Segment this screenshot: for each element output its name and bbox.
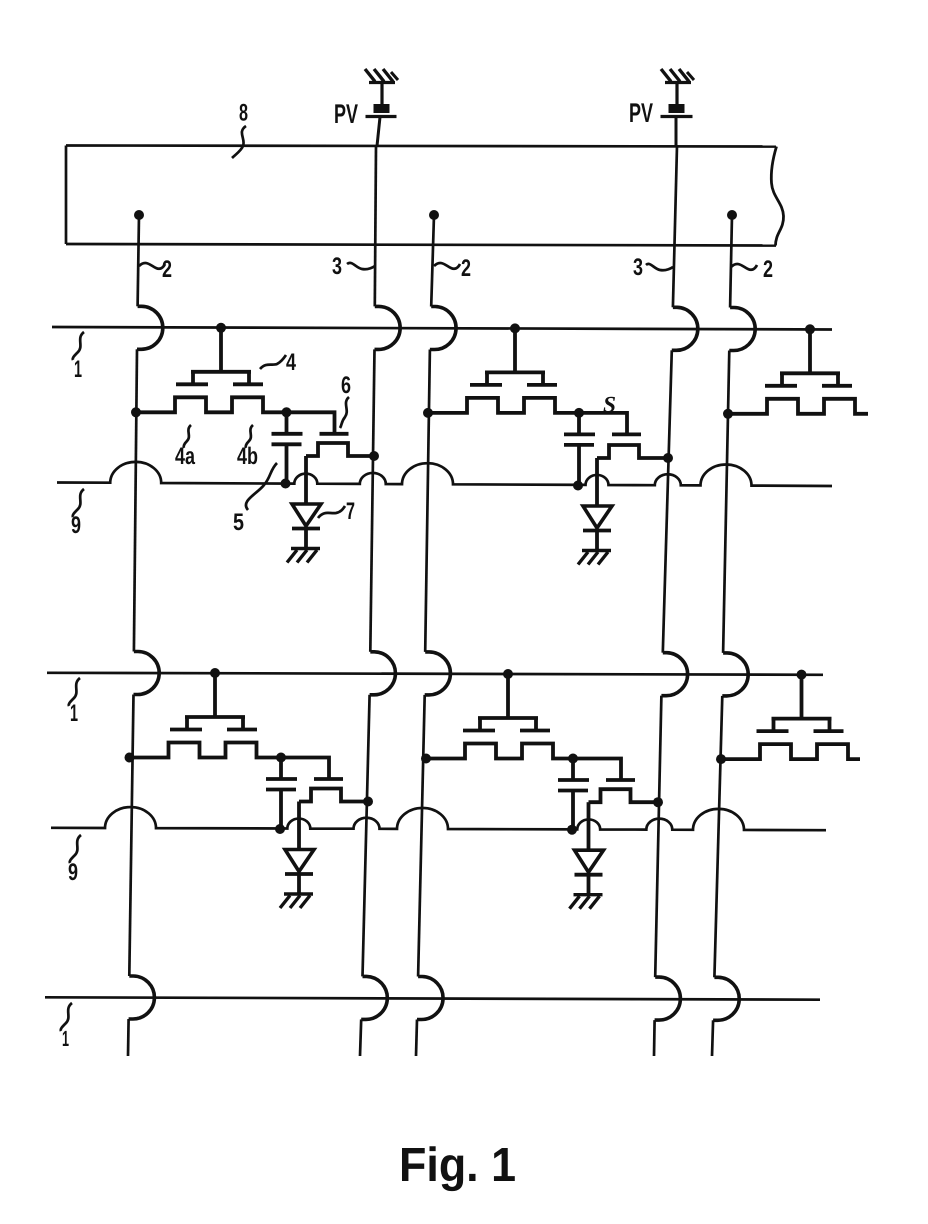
label 1 (second) with leader — [69, 678, 80, 727]
node dot R2C2 — [568, 754, 578, 764]
wire PV1 to bus — [377, 117, 380, 146]
wire ground to PV1 plate — [380, 83, 383, 106]
label 2 (c1) with leader — [139, 256, 172, 283]
svg-text:9: 9 — [71, 512, 81, 539]
svg-text:2: 2 — [162, 256, 172, 283]
node dot R1C2 — [574, 408, 584, 418]
node dot R1C1 — [282, 407, 292, 417]
capacitor 5 (R1C1) — [272, 412, 303, 488]
wire PV2 to bus — [675, 117, 678, 146]
svg-text:4a: 4a — [175, 443, 195, 470]
photodiode 7 (R2C1) — [285, 802, 314, 895]
photodiode 7 (R1C1) — [292, 456, 321, 549]
svg-text:3: 3 — [332, 253, 342, 280]
column line 2 (c1) — [128, 210, 163, 1056]
svg-text:1: 1 — [70, 700, 78, 727]
ground (R2C1) — [280, 894, 313, 908]
label 6 with leader — [340, 372, 351, 428]
node dot R2C1 — [276, 753, 286, 763]
label 4 with leader — [260, 349, 296, 376]
row line 1 (third) — [45, 997, 820, 999]
label 5 with leader — [233, 463, 277, 536]
caption Fig. 1 — [399, 1139, 516, 1192]
label PV2 — [629, 98, 653, 128]
column line 2 (c3) — [416, 210, 456, 1056]
bus 8 bottom conductor — [66, 244, 776, 246]
svg-text:4: 4 — [286, 349, 296, 376]
svg-text:Fig. 1: Fig. 1 — [399, 1139, 516, 1192]
capacitor PV2 (supply symbol) — [661, 104, 693, 117]
label 9 (first) with leader — [71, 489, 84, 539]
transistor 6 (R2C2) — [573, 759, 663, 808]
svg-text:1: 1 — [62, 1026, 69, 1051]
ground (R2C2) — [570, 895, 603, 909]
label 2 (c3) with leader — [434, 255, 471, 282]
label 1 (first) with leader — [73, 332, 84, 383]
wire ground to PV2 plate — [675, 83, 678, 106]
transistor 4 (R2C3 partial) — [716, 670, 860, 765]
column line 3 (c4 / PV2) — [654, 146, 698, 1056]
svg-text:PV: PV — [334, 99, 358, 129]
svg-text:1: 1 — [74, 356, 82, 383]
photodiode 7 (R2C2) — [575, 802, 604, 895]
transistor 4 (R2C2) — [421, 669, 573, 764]
svg-text:5: 5 — [233, 509, 244, 536]
svg-text:4b: 4b — [237, 443, 258, 470]
svg-text:9: 9 — [68, 859, 78, 886]
label 1 (third) with leader — [61, 1003, 72, 1051]
svg-text:7: 7 — [346, 498, 355, 525]
transistor 4 (R1C2) — [423, 323, 579, 418]
label 3 (c2) with leader — [332, 253, 375, 280]
label 2 (c5) with leader — [731, 256, 773, 283]
row line 9 (first) — [57, 462, 832, 486]
svg-text:2: 2 — [461, 255, 471, 282]
row line 1 (second) — [47, 673, 823, 675]
transistor 6 (R2C1) — [281, 758, 373, 807]
svg-text:2: 2 — [763, 256, 773, 283]
column line 2 (c5) — [712, 210, 755, 1056]
transistor 6 (R1C1) — [287, 412, 380, 461]
label PV1 — [334, 99, 358, 129]
label 8 with leader — [232, 100, 248, 159]
ground (R1C1) — [287, 549, 320, 563]
svg-text:S: S — [603, 392, 616, 417]
transistor 6 (R1C2) — [579, 413, 673, 463]
svg-text:8: 8 — [239, 100, 248, 127]
bus 8 broken right edge — [771, 147, 783, 246]
capacitor PV1 (supply symbol) — [366, 104, 397, 117]
svg-text:3: 3 — [633, 254, 643, 281]
label 4a with leader — [175, 425, 195, 470]
label 9 (second) with leader — [68, 835, 81, 886]
ground (PV2) — [661, 69, 694, 83]
label 7 with leader — [318, 498, 355, 525]
ground (R1C2) — [578, 551, 611, 565]
capacitor 5 (R1C2) — [564, 413, 595, 491]
svg-text:6: 6 — [341, 372, 351, 399]
ground (PV1) — [365, 69, 398, 83]
column line 3 (c2 / PV1) — [360, 146, 400, 1056]
label S — [603, 392, 616, 417]
transistor 4 (R1C3 partial) — [723, 324, 868, 419]
label 3 (c4) with leader — [633, 254, 673, 281]
capacitor 5 (R2C1) — [266, 758, 297, 835]
row line 1 (first) — [52, 327, 832, 330]
bus 8 left edge — [65, 146, 68, 245]
row line 9 (second) — [51, 807, 826, 830]
transistor 4 (R2C1) — [125, 668, 282, 763]
label 4b with leader — [237, 425, 258, 470]
photodiode 7 (R1C2) — [583, 458, 612, 551]
svg-text:PV: PV — [629, 98, 653, 128]
capacitor 5 (R2C2) — [558, 759, 589, 835]
bus 8 top conductor — [66, 146, 776, 147]
transistor 4 (R1C1) — [131, 323, 287, 418]
